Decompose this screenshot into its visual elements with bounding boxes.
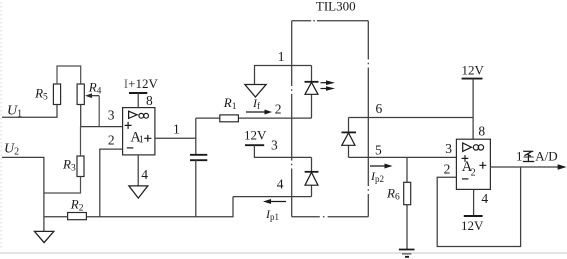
svg-text:3: 3 [445, 141, 452, 156]
svg-text:12V: 12V [462, 63, 485, 78]
wire U2 input [2, 157, 44, 231]
svg-text:4: 4 [481, 191, 488, 206]
ground (A1 common triangle) [129, 186, 148, 198]
op-amp A1 triangle-infinity symbol [129, 111, 149, 118]
svg-text:A/D: A/D [535, 148, 557, 163]
svg-text:4: 4 [141, 167, 148, 182]
wire pin3 of A1 [81, 105, 123, 127]
svg-text:12V: 12V [244, 128, 267, 143]
svg-text:12V: 12V [461, 218, 484, 233]
svg-text:I+12V: I+12V [124, 76, 159, 91]
wire pin2 of A1 [100, 149, 123, 217]
svg-text:1: 1 [278, 49, 285, 64]
wire U1 input [2, 105, 57, 118]
resistor R3 [44, 127, 84, 193]
svg-text:2: 2 [275, 101, 282, 116]
svg-text:1: 1 [173, 122, 180, 137]
svg-text:TIL300: TIL300 [316, 0, 356, 13]
resistor R5 [53, 66, 80, 105]
resistor R2 [68, 213, 87, 220]
svg-text:8: 8 [146, 93, 153, 108]
ground (left common triangle) [35, 231, 54, 242]
pin 4 of A2 + power 12V bottom [473, 189, 475, 215]
svg-text:2: 2 [108, 132, 115, 147]
svg-text:6: 6 [376, 101, 383, 116]
svg-text:8: 8 [478, 124, 485, 139]
svg-text:3: 3 [108, 107, 115, 122]
LED D1 [311, 66, 313, 119]
ground (pin1 common triangle) [255, 66, 312, 85]
wiper arrow of R4 [85, 93, 99, 126]
op-amp A2 [456, 139, 490, 189]
current Ip1 arrow [263, 199, 286, 204]
svg-text:3: 3 [271, 137, 278, 152]
svg-text:4: 4 [277, 177, 284, 192]
resistor R6 [406, 157, 408, 249]
wire output to A/D [490, 166, 559, 168]
svg-text:1: 1 [139, 134, 144, 145]
photodiode P1 [311, 157, 313, 196]
svg-text:5: 5 [375, 142, 382, 157]
current If arrow [246, 110, 272, 115]
wire A1 output node 1 [155, 118, 196, 154]
wire pin6 [349, 117, 474, 119]
svg-text:2: 2 [444, 162, 451, 177]
wire pin5 [349, 156, 457, 158]
wire pin4 [233, 196, 312, 198]
ground (earth, R6) [399, 250, 415, 257]
LED light emission arrows [321, 80, 336, 90]
capacitor C1 [190, 155, 207, 160]
wire bottom bus [44, 197, 233, 217]
op-amp A1 [123, 108, 155, 155]
resistor R1 [196, 117, 312, 119]
resistor R4 (potentiometer) [77, 84, 84, 105]
photodiode P2 [348, 118, 350, 158]
pin 4 of A1 [137, 155, 139, 186]
TIL300 isolation box [292, 21, 369, 217]
wire A2 feedback [437, 167, 520, 247]
svg-text:1: 1 [516, 148, 523, 163]
svg-text:2: 2 [471, 167, 476, 178]
current Ip2 arrow [370, 164, 393, 169]
